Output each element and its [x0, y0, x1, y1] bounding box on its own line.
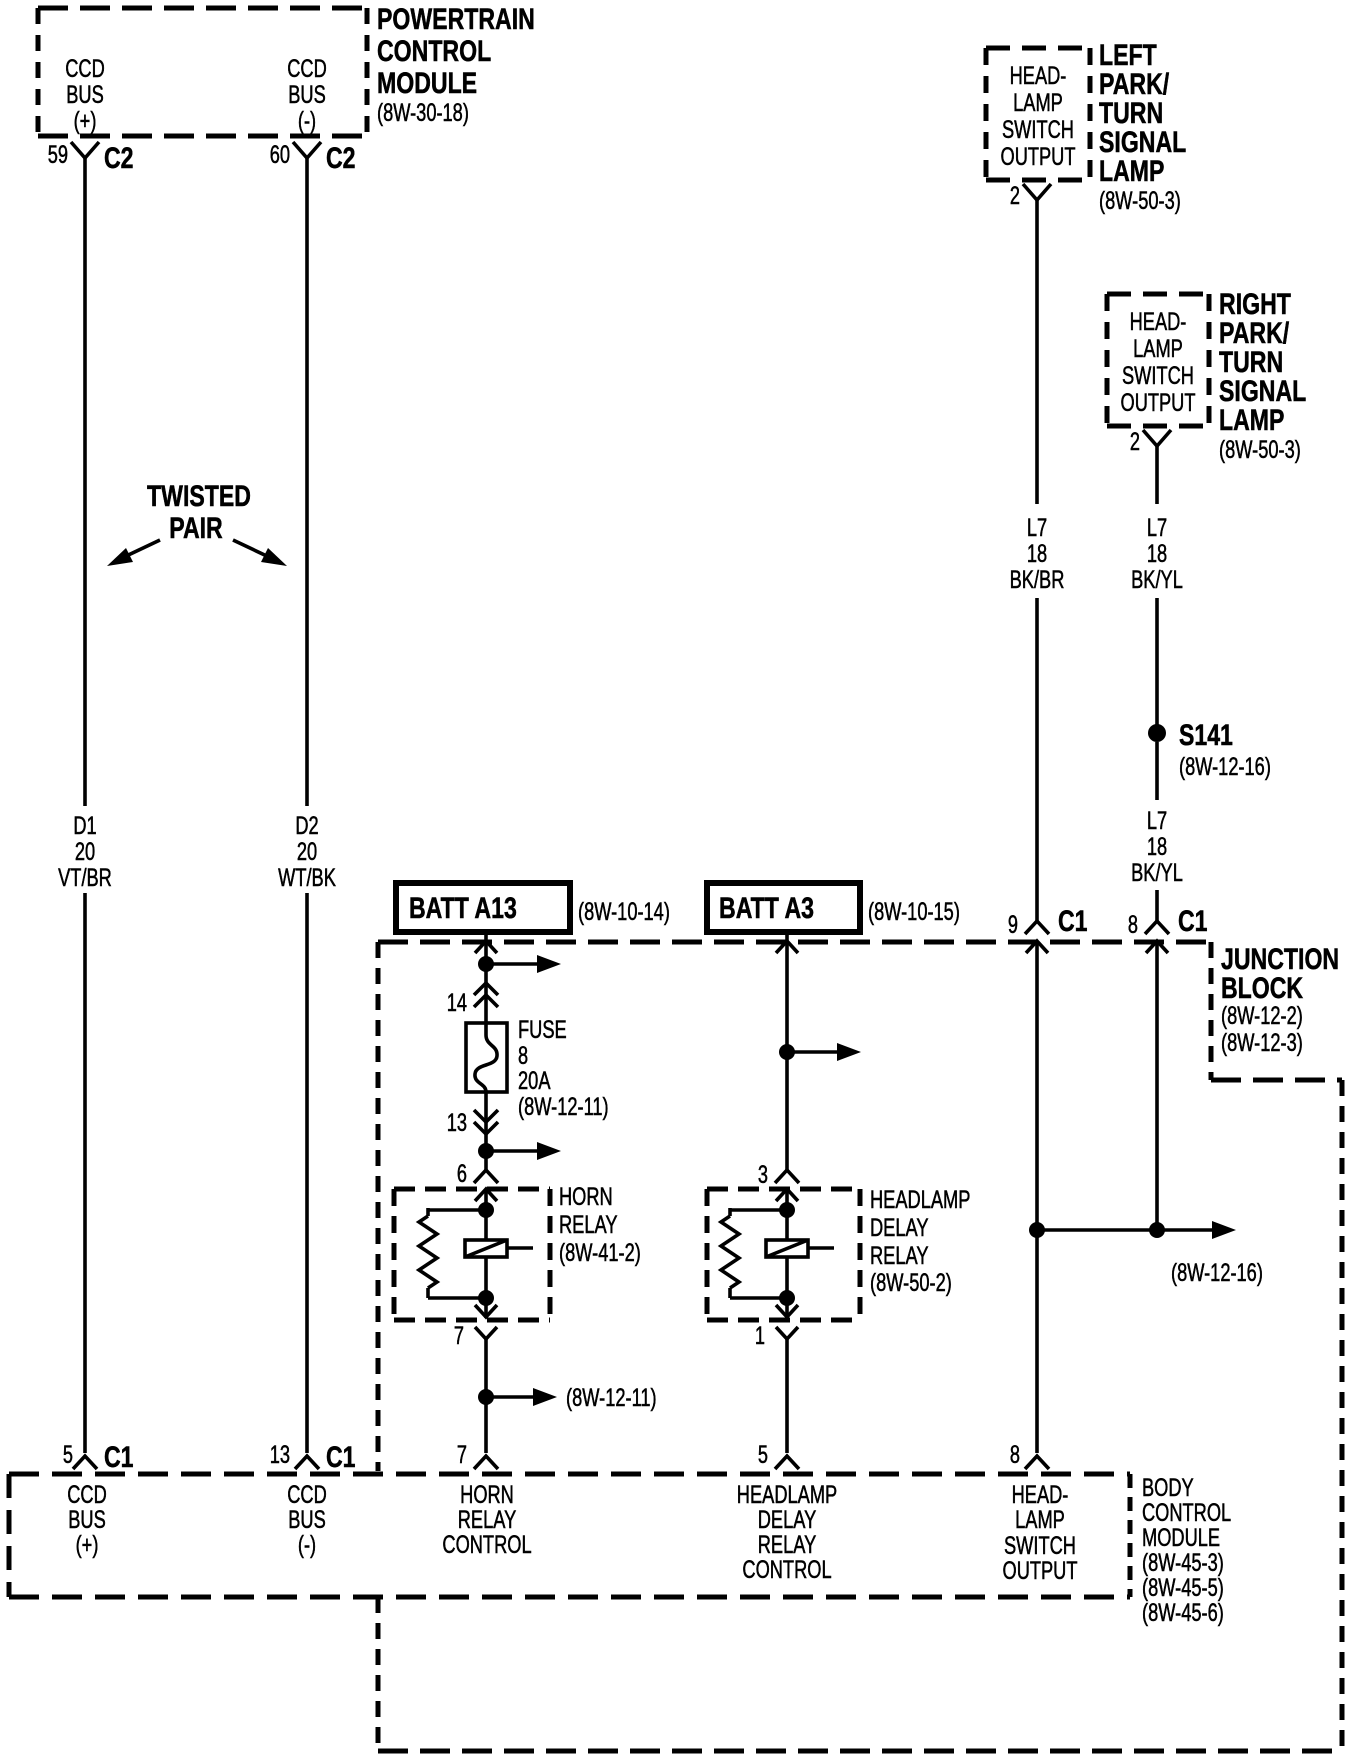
reference (8W-12-16) [1171, 1259, 1263, 1287]
svg-text:(8W-50-2): (8W-50-2) [870, 1269, 952, 1297]
svg-text:(8W-41-2): (8W-41-2) [559, 1239, 641, 1267]
wire horn relay control [484, 1339, 488, 1453]
connector arrow into delay relay [776, 1189, 798, 1201]
svg-text:C2: C2 [104, 142, 134, 175]
delay relay node bottom [779, 1290, 795, 1306]
svg-text:60: 60 [270, 141, 290, 169]
wire CCD bus + lower [83, 893, 87, 1453]
wire CCD bus + upper [83, 158, 87, 806]
delay relay coil lower wire [785, 1257, 789, 1318]
svg-text:L7: L7 [1147, 514, 1167, 542]
horn relay coil lower wire [484, 1257, 488, 1318]
svg-text:S141: S141 [1179, 719, 1233, 752]
svg-text:(8W-12-16): (8W-12-16) [1171, 1259, 1263, 1287]
svg-text:CONTROL: CONTROL [442, 1531, 531, 1559]
svg-text:CCD: CCD [287, 1481, 327, 1509]
svg-text:SWITCH: SWITCH [1002, 116, 1074, 144]
BCM pin label CCD BUS (-) [287, 1481, 327, 1559]
connector pin 2 right lamp [1130, 428, 1171, 456]
svg-text:OUTPUT: OUTPUT [1003, 1557, 1078, 1585]
left box pin label [1001, 62, 1076, 171]
svg-text:9: 9 [1008, 911, 1018, 939]
svg-text:LAMP: LAMP [1099, 155, 1164, 188]
fuse pin 13 [447, 1109, 498, 1137]
wire label L7 18 BK/YL lower [1131, 807, 1183, 887]
horn relay pin out [475, 1305, 497, 1317]
svg-text:SWITCH: SWITCH [1004, 1532, 1076, 1560]
connector C1 pin 8 [1128, 905, 1208, 953]
svg-text:18: 18 [1147, 540, 1167, 568]
svg-text:C2: C2 [326, 142, 356, 175]
svg-text:20: 20 [297, 838, 317, 866]
svg-text:(8W-10-15): (8W-10-15) [868, 898, 960, 926]
svg-text:(8W-10-14): (8W-10-14) [578, 898, 670, 926]
svg-text:HEAD-: HEAD- [1130, 308, 1187, 336]
right headlamp switch output box (dashed) [1107, 294, 1209, 426]
svg-text:RELAY: RELAY [870, 1242, 929, 1270]
svg-text:(8W-50-3): (8W-50-3) [1099, 187, 1181, 215]
svg-text:(+): (+) [74, 107, 97, 135]
wire fuse to horn relay [484, 1092, 488, 1170]
svg-text:WT/BK: WT/BK [278, 864, 336, 892]
svg-text:CCD: CCD [65, 55, 105, 83]
left headlamp switch output box (dashed) [986, 48, 1090, 180]
connector pin 1 below delay relay [755, 1322, 798, 1350]
svg-text:BODY: BODY [1142, 1474, 1194, 1502]
wire CCD bus - lower [305, 893, 309, 1453]
svg-text:LAMP: LAMP [1013, 89, 1063, 117]
svg-text:BUS: BUS [68, 1506, 106, 1534]
body control module label [1142, 1474, 1231, 1627]
BATT A13 feed box [396, 883, 670, 932]
svg-text:(-): (-) [298, 1531, 316, 1559]
svg-text:18: 18 [1147, 833, 1167, 861]
wire label L7 18 BK/BR [1010, 514, 1065, 594]
svg-text:C1: C1 [1178, 905, 1208, 938]
node fused feed [478, 1142, 561, 1160]
svg-text:DELAY: DELAY [870, 1214, 929, 1242]
horn relay feed wire [484, 1189, 488, 1240]
wire BK/YL upper [1155, 446, 1159, 504]
svg-text:L7: L7 [1147, 807, 1167, 835]
svg-text:VT/BR: VT/BR [58, 864, 112, 892]
wire batt A13 to fuse [484, 932, 488, 1023]
svg-text:5: 5 [63, 1441, 73, 1469]
svg-text:59: 59 [48, 141, 68, 169]
wire BK/BR upper [1035, 200, 1039, 504]
svg-text:20: 20 [75, 838, 95, 866]
bus wire to 8W-12-16 [1037, 1221, 1236, 1239]
svg-text:D2: D2 [295, 812, 318, 840]
svg-text:2: 2 [1130, 428, 1140, 456]
svg-text:C1: C1 [326, 1441, 356, 1474]
svg-text:20A: 20A [518, 1067, 551, 1095]
svg-text:6: 6 [457, 1160, 467, 1188]
svg-text:(8W-12-11): (8W-12-11) [566, 1384, 657, 1412]
svg-text:HEAD-: HEAD- [1012, 1481, 1069, 1509]
svg-text:1: 1 [755, 1322, 765, 1350]
svg-text:BK/BR: BK/BR [1010, 566, 1065, 594]
wire batt A3 feed [785, 932, 789, 1170]
horn relay pin 6 [457, 1160, 498, 1188]
connector C2 pin 60 [270, 141, 356, 175]
svg-text:BUS: BUS [288, 81, 326, 109]
svg-text:(8W-50-3): (8W-50-3) [1219, 436, 1301, 464]
BCM pin label HEADLAMP DELAY RELAY CONTROL [737, 1481, 837, 1584]
junction block label [1221, 943, 1339, 1057]
svg-text:HORN: HORN [559, 1183, 613, 1211]
svg-text:HEADLAMP: HEADLAMP [737, 1481, 837, 1509]
connector C2 pin 59 [48, 141, 134, 175]
svg-text:BUS: BUS [288, 1506, 326, 1534]
svg-text:(8W-45-3): (8W-45-3) [1142, 1549, 1224, 1577]
svg-text:18: 18 [1027, 540, 1047, 568]
svg-text:TWISTED: TWISTED [147, 480, 251, 513]
svg-text:14: 14 [447, 989, 467, 1017]
svg-text:13: 13 [270, 1441, 290, 1469]
svg-text:BLOCK: BLOCK [1221, 972, 1303, 1005]
junction node at column 8 [1149, 1222, 1165, 1238]
wire BK/YL to junction [1155, 890, 1159, 921]
junction block outline (dashed) [378, 942, 1342, 1751]
svg-text:8: 8 [1128, 911, 1138, 939]
right box pin label [1121, 308, 1196, 417]
svg-text:OUTPUT: OUTPUT [1121, 389, 1196, 417]
wire CCD bus - upper [305, 158, 309, 806]
delay relay pin 3 [758, 1161, 799, 1189]
BATT A3 feed box [707, 883, 960, 932]
BCM pin label HEAD-LAMP SWITCH OUTPUT [1003, 1481, 1078, 1585]
delay relay resistor branch [721, 1208, 787, 1298]
svg-text:BK/YL: BK/YL [1131, 859, 1183, 887]
connector arrow into horn relay [475, 1189, 497, 1201]
svg-text:8: 8 [518, 1042, 528, 1070]
svg-text:7: 7 [457, 1441, 467, 1469]
svg-text:C1: C1 [104, 1441, 134, 1474]
svg-text:(8W-12-11): (8W-12-11) [518, 1093, 609, 1121]
svg-text:(-): (-) [298, 107, 316, 135]
svg-text:C1: C1 [1058, 905, 1088, 938]
svg-text:OUTPUT: OUTPUT [1001, 143, 1076, 171]
wire BK/BR lower [1035, 598, 1039, 921]
connector C1 pin 9 [1008, 905, 1088, 953]
svg-text:HORN: HORN [460, 1481, 514, 1509]
svg-text:7: 7 [454, 1322, 464, 1350]
wire BK/YL middle [1155, 598, 1159, 733]
svg-text:LAMP: LAMP [1133, 335, 1183, 363]
svg-text:(8W-12-2): (8W-12-2) [1221, 1002, 1303, 1030]
svg-text:PAIR: PAIR [169, 512, 223, 545]
svg-text:CCD: CCD [67, 1481, 107, 1509]
connector pin 7 below horn relay [454, 1322, 497, 1350]
delay relay feed wire [785, 1189, 789, 1240]
headlamp delay relay box (dashed) [707, 1189, 860, 1320]
svg-text:CONTROL: CONTROL [1142, 1499, 1231, 1527]
svg-text:3: 3 [758, 1161, 768, 1189]
BCM connector pin 5 CCD+ [63, 1441, 134, 1474]
wire label L7 18 BK/YL upper [1131, 514, 1183, 594]
horn relay coil [465, 1240, 533, 1257]
svg-text:SWITCH: SWITCH [1122, 362, 1194, 390]
svg-text:FUSE: FUSE [518, 1016, 567, 1044]
svg-text:CONTROL: CONTROL [377, 35, 491, 68]
svg-text:L7: L7 [1027, 514, 1047, 542]
svg-text:(8W-30-18): (8W-30-18) [377, 99, 469, 127]
horn relay box (dashed) [394, 1189, 550, 1320]
connector pin 2 left lamp [1010, 182, 1051, 210]
BCM connector pin 5 col D [758, 1441, 799, 1469]
svg-text:BUS: BUS [66, 81, 104, 109]
powertrain control module box (dashed) [38, 8, 367, 136]
fuse 8 20A [466, 1016, 609, 1121]
delay relay coil [766, 1240, 834, 1257]
svg-text:BK/YL: BK/YL [1131, 566, 1183, 594]
svg-text:RELAY: RELAY [758, 1531, 817, 1559]
svg-text:RELAY: RELAY [559, 1211, 618, 1239]
node batt A3 distribution [779, 1043, 861, 1061]
wire delay relay control [785, 1339, 789, 1453]
svg-text:(8W-12-3): (8W-12-3) [1221, 1029, 1303, 1057]
wire park lamp feed inside junction block [1155, 941, 1159, 1230]
svg-text:(8W-45-5): (8W-45-5) [1142, 1574, 1224, 1602]
svg-text:2: 2 [1010, 182, 1020, 210]
svg-text:BATT A3: BATT A3 [719, 892, 814, 925]
fuse pin 14 [447, 983, 498, 1017]
BCM connector pin 13 CCD- [270, 1441, 356, 1474]
svg-text:(8W-45-6): (8W-45-6) [1142, 1599, 1224, 1627]
horn relay node bottom [478, 1290, 494, 1306]
svg-text:CCD: CCD [287, 55, 327, 83]
body control module box (dashed) [9, 1474, 1130, 1597]
horn relay resistor branch [419, 1208, 486, 1298]
splice S141 [1148, 719, 1271, 781]
svg-text:8: 8 [1010, 1441, 1020, 1469]
svg-text:POWERTRAIN: POWERTRAIN [377, 3, 535, 36]
svg-text:CONTROL: CONTROL [742, 1556, 831, 1584]
wire BK/YL below splice [1155, 742, 1159, 800]
horn relay node top [478, 1202, 494, 1218]
svg-text:BATT A13: BATT A13 [409, 892, 517, 925]
wire label D2 20 WT/BK [278, 812, 336, 892]
wire headlamp switch output inside junction block [1035, 941, 1039, 1453]
junction node at column 9 [1029, 1222, 1045, 1238]
node horn relay control split [478, 1384, 657, 1412]
svg-text:(+): (+) [76, 1531, 99, 1559]
svg-text:DELAY: DELAY [758, 1506, 817, 1534]
connector arrow into junction block col C [475, 941, 497, 953]
delay relay node top [779, 1202, 795, 1218]
connector arrow into junction block col D [776, 941, 798, 953]
svg-text:LAMP: LAMP [1015, 1506, 1065, 1534]
left park/turn signal lamp label [1099, 39, 1186, 215]
headlamp delay relay label [870, 1186, 970, 1297]
BCM connector pin 7 [457, 1441, 498, 1469]
svg-text:(8W-12-16): (8W-12-16) [1179, 753, 1271, 781]
svg-text:RELAY: RELAY [458, 1506, 517, 1534]
BCM connector pin 8 headlamp switch output [1010, 1441, 1049, 1469]
svg-text:LAMP: LAMP [1219, 404, 1284, 437]
svg-text:MODULE: MODULE [377, 67, 477, 100]
delay relay pin out [776, 1305, 798, 1317]
PCM title label [377, 3, 535, 127]
BCM pin label HORN RELAY CONTROL [442, 1481, 531, 1559]
svg-text:HEADLAMP: HEADLAMP [870, 1186, 970, 1214]
horn relay label [559, 1183, 641, 1267]
PCM pin label CCD BUS (+) [65, 55, 105, 135]
right park/turn signal lamp label [1219, 288, 1306, 464]
BCM pin label CCD BUS (+) [67, 1481, 107, 1559]
wire label D1 20 VT/BR [58, 812, 112, 892]
node batt A13 distribution [478, 955, 561, 973]
PCM pin label CCD BUS (-) [287, 55, 327, 135]
twisted pair note [107, 480, 287, 566]
svg-text:MODULE: MODULE [1142, 1524, 1220, 1552]
svg-text:5: 5 [758, 1441, 768, 1469]
svg-text:D1: D1 [73, 812, 96, 840]
svg-text:HEAD-: HEAD- [1010, 62, 1067, 90]
svg-text:13: 13 [447, 1109, 467, 1137]
